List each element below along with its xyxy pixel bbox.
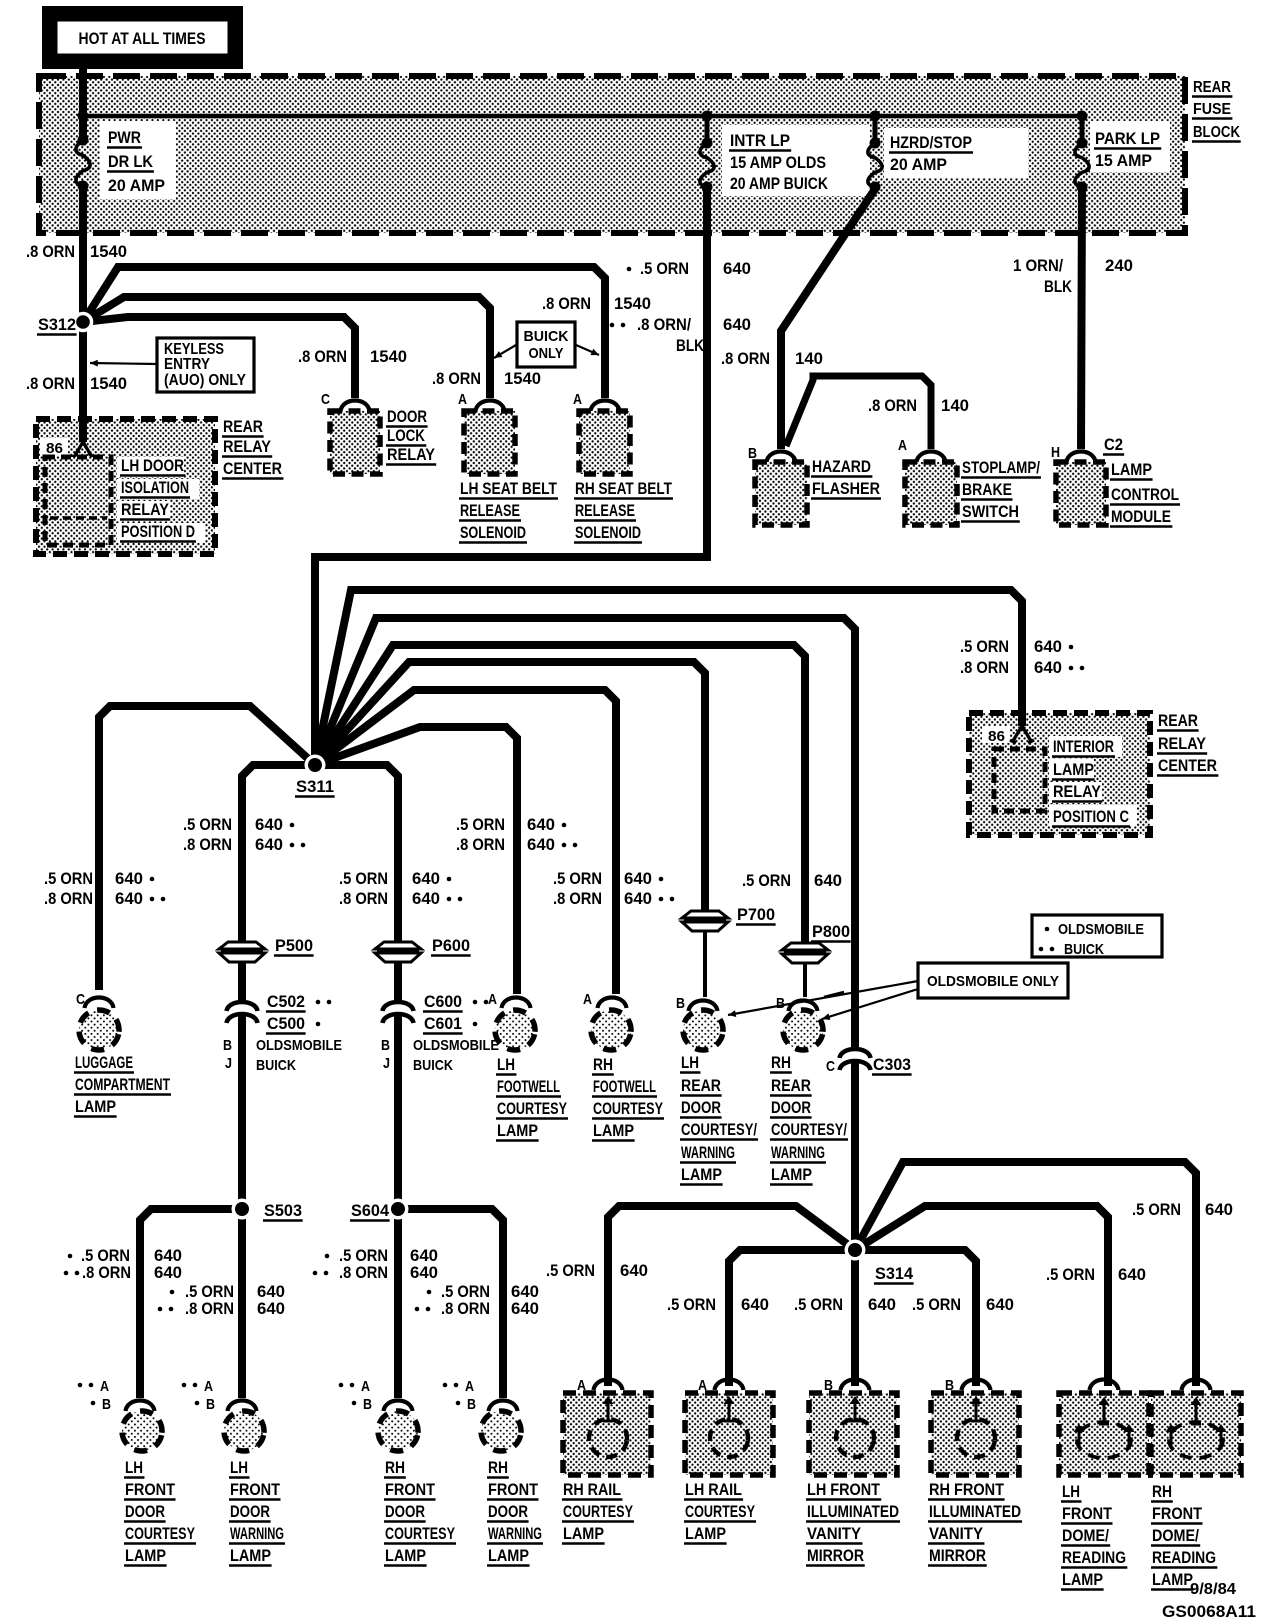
svg-text:C601: C601 [424,1015,462,1033]
fuse INTR LP 15 AMP OLDS / 20 AMP BUICK [702,138,713,149]
svg-text:20 AMP BUICK: 20 AMP BUICK [730,174,829,193]
svg-text:COURTESY: COURTESY [563,1503,633,1521]
svg-text:LH DOOR: LH DOOR [121,457,184,475]
wire: S311 to LH footwell courtesy lamp [315,727,517,994]
svg-text:REAR: REAR [223,418,263,436]
wire: C600 down to splice S604 [394,1015,402,1210]
label box HOT AT ALL TIMES [42,6,243,69]
svg-text:BUICK: BUICK [1064,941,1104,958]
svg-text:MIRROR: MIRROR [807,1547,864,1565]
bus wire inside fuse block [83,114,1082,119]
svg-text:ILLUMINATED: ILLUMINATED [929,1503,1021,1521]
lamp: RH FOOTWELL COURTESY LAMP, pin A [583,991,664,1141]
svg-text:20 AMP: 20 AMP [108,176,165,195]
svg-text:LAMP: LAMP [385,1547,426,1565]
svg-text:.5 ORN: .5 ORN [456,816,505,834]
svg-text:.5 ORN: .5 ORN [183,816,232,834]
svg-text:.5 ORN: .5 ORN [546,1262,595,1280]
wire: INTR LP fuse down and across to splice S311 [315,187,707,765]
REAR FUSE BLOCK (stippled dashed box) [39,76,1185,233]
svg-text:1540: 1540 [614,295,651,313]
svg-text:.5 ORN: .5 ORN [1046,1266,1095,1284]
svg-text:B: B [223,1037,232,1054]
svg-text:RELAY: RELAY [223,438,271,456]
svg-text:COURTESY/: COURTESY/ [771,1121,847,1139]
svg-text:640: 640 [527,816,555,834]
svg-text:INTERIOR: INTERIOR [1053,738,1114,756]
svg-text:.5 ORN: .5 ORN [553,870,602,888]
svg-text:FRONT: FRONT [125,1481,175,1499]
svg-text:.8 ORN: .8 ORN [456,836,505,854]
svg-text:.5 ORN: .5 ORN [339,870,388,888]
svg-text:640: 640 [723,316,751,334]
lamp: LH FOOTWELL COURTESY LAMP, pin A [488,991,568,1141]
wire: S311 to P600 branch [315,765,398,942]
connector P800 [782,943,828,963]
svg-text:LH: LH [497,1056,515,1074]
svg-text:.8 ORN: .8 ORN [542,295,591,313]
lamp: LH FRONT DOME/READING LAMP [1059,1380,1149,1590]
svg-text:A: A [488,991,497,1008]
svg-text:H: H [1051,444,1060,461]
svg-text:FRONT: FRONT [230,1481,280,1499]
wire: PARK LP fuse to lamp control module [1081,187,1082,449]
svg-text:15 AMP: 15 AMP [1095,151,1152,170]
wire: S311 to RH footwell courtesy lamp [315,690,616,994]
svg-text:.8 ORN/: .8 ORN/ [637,316,691,334]
svg-text:C502: C502 [267,993,305,1011]
svg-text:.5 ORN: .5 ORN [81,1247,130,1265]
svg-text:RELAY: RELAY [387,446,435,464]
svg-text:LAMP: LAMP [685,1525,726,1543]
svg-text:.5 ORN: .5 ORN [44,870,93,888]
svg-text:20 AMP: 20 AMP [890,155,947,174]
svg-text:LAMP: LAMP [1062,1571,1103,1589]
relay K1 DOOR LOCK RELAY [321,391,436,474]
svg-text:RH: RH [771,1054,791,1072]
svg-text:640: 640 [115,870,143,888]
svg-text:.8 ORN: .8 ORN [339,890,388,908]
svg-text:PARK LP: PARK LP [1095,129,1160,148]
svg-text:MIRROR: MIRROR [929,1547,986,1565]
svg-text:BLK: BLK [676,337,704,355]
callout box KEYLESS ENTRY (AUO) ONLY with arrow to wire [157,338,254,392]
svg-text:REAR: REAR [1193,79,1231,96]
svg-text:LAMP: LAMP [593,1122,634,1140]
svg-text:.5 ORN: .5 ORN [912,1296,961,1314]
svg-text:COURTESY: COURTESY [593,1100,663,1118]
svg-text:BUICK: BUICK [256,1057,296,1074]
svg-text:640: 640 [624,890,652,908]
svg-text:C600: C600 [424,993,462,1011]
splice S314 [845,1240,866,1261]
svg-text:B: B [467,1396,476,1413]
svg-text:RELEASE: RELEASE [575,502,635,520]
svg-text:CENTER: CENTER [1158,757,1217,775]
svg-text:BLOCK: BLOCK [1193,124,1240,141]
wire: S314 to LH front dome/reading lamp [855,1206,1108,1386]
svg-text:DOME/: DOME/ [1062,1527,1109,1545]
svg-text:.5 ORN: .5 ORN [339,1247,388,1265]
junction dot at PWR fuse tap [78,111,89,122]
relay INTERIOR LAMP RELAY inner box [994,749,1045,811]
svg-text:S503: S503 [264,1202,302,1220]
svg-text:640: 640 [741,1296,769,1314]
svg-text:DOOR: DOOR [771,1099,811,1117]
svg-text:LH: LH [681,1054,699,1072]
svg-text:1540: 1540 [90,375,127,393]
svg-text:LAMP: LAMP [488,1547,529,1565]
svg-text:A: A [465,1378,474,1395]
svg-text:READING: READING [1062,1549,1126,1567]
svg-text:S311: S311 [296,778,334,796]
svg-text:.5 ORN: .5 ORN [640,260,689,278]
svg-text:J: J [225,1055,232,1072]
svg-text:.5 ORN: .5 ORN [667,1296,716,1314]
svg-text:.8 ORN: .8 ORN [553,890,602,908]
svg-text:C303: C303 [873,1056,911,1074]
svg-text:640: 640 [257,1300,285,1318]
wire: S311 to P500 branch [242,765,315,942]
svg-text:OLDSMOBILE: OLDSMOBILE [256,1037,342,1054]
svg-text:S312: S312 [38,316,76,334]
svg-text:86: 86 [46,440,63,457]
svg-text:DOME/: DOME/ [1152,1527,1199,1545]
splice S503 and branch to LH front door courtesy lamp [140,1209,242,1398]
wire: P700 to LH rear door lamp pin B [703,932,707,997]
svg-text:LAMP: LAMP [681,1166,722,1184]
svg-text:1540: 1540 [504,370,541,388]
svg-text:.8 ORN: .8 ORN [960,659,1009,677]
svg-text:640: 640 [868,1296,896,1314]
svg-text:.8 ORN: .8 ORN [868,397,917,415]
lamp: LH FRONT DOOR WARNING LAMP, pins A/B [182,1378,285,1566]
svg-text:640: 640 [255,816,283,834]
svg-text:HAZARD: HAZARD [812,458,871,476]
svg-text:640: 640 [1118,1266,1146,1284]
svg-text:COMPARTMENT: COMPARTMENT [75,1076,170,1094]
connector C502 (Olds) / C500 (Buick) [227,1002,258,1011]
svg-text:RH: RH [1152,1483,1172,1501]
relay center: INTERIOR LAMP RELAY POSITION C in REAR RELAY CENTER [969,710,1218,835]
svg-text:B: B [206,1396,215,1413]
svg-text:FLASHER: FLASHER [812,480,880,498]
wire: S314 to RH front dome/reading lamp [855,1162,1196,1386]
svg-text:DOOR: DOOR [230,1503,270,1521]
svg-text:.8 ORN: .8 ORN [298,348,347,366]
svg-text:C: C [826,1058,835,1075]
svg-text:.5 ORN: .5 ORN [794,1296,843,1314]
svg-text:640: 640 [412,890,440,908]
svg-text:9/8/84: 9/8/84 [1190,1581,1236,1598]
junction dot at PARK LP fuse tap [1077,111,1088,122]
solenoid LH SEAT BELT RELEASE SOLENOID [458,391,558,543]
svg-text:RH: RH [488,1459,508,1477]
wire: S311 to P800 / RH rear door lamp [315,645,805,942]
svg-text:.8 ORN: .8 ORN [185,1300,234,1318]
svg-text:640: 640 [410,1247,438,1265]
svg-text:B: B [102,1396,111,1413]
svg-text:RH: RH [385,1459,405,1477]
svg-text:.8 ORN: .8 ORN [432,370,481,388]
svg-text:CENTER: CENTER [223,460,282,478]
svg-text:OLDSMOBILE ONLY: OLDSMOBILE ONLY [927,973,1059,990]
svg-text:640: 640 [115,890,143,908]
svg-text:140: 140 [795,350,823,368]
junction dot at HZRD/STOP fuse tap [870,111,881,122]
svg-text:15 AMP OLDS: 15 AMP OLDS [730,153,826,172]
svg-text:1 ORN/: 1 ORN/ [1013,257,1063,275]
svg-text:ILLUMINATED: ILLUMINATED [807,1503,899,1521]
svg-text:640: 640 [511,1283,539,1301]
svg-text:.8 ORN: .8 ORN [183,836,232,854]
svg-text:LAMP: LAMP [230,1547,271,1565]
wire: P800 to RH rear door lamp pin B [803,964,807,997]
svg-text:LAMP: LAMP [497,1122,538,1140]
connector P600 [375,942,421,962]
wire: S312 to RH seat belt release solenoid [83,267,605,398]
svg-text:RELAY: RELAY [1053,783,1101,801]
svg-text:REAR: REAR [1158,712,1198,730]
svg-text:PWR: PWR [108,128,141,147]
label .5 ORN 640 / .8 ORN 640 (LH courtesy branch) [68,1254,73,1259]
svg-text:640: 640 [620,1262,648,1280]
svg-text:FOOTWELL: FOOTWELL [497,1078,560,1096]
svg-text:240: 240 [1105,257,1133,275]
svg-text:OLDSMOBILE: OLDSMOBILE [1058,921,1144,938]
wire: S311 to interior lamp relay (rear relay center) [315,590,1022,765]
svg-text:FRONT: FRONT [1152,1505,1202,1523]
svg-text:RH RAIL: RH RAIL [563,1481,621,1499]
fuse HZRD/STOP 20 AMP [870,138,881,149]
svg-text:.8 ORN: .8 ORN [339,1264,388,1282]
svg-text:RH: RH [593,1056,613,1074]
svg-text:VANITY: VANITY [929,1525,983,1543]
wire: P600 to C600 [394,963,402,1003]
label .5 ORN 640 / .8 ORN 640 (LH warning branch) [170,1290,175,1295]
svg-text:640: 640 [1034,638,1062,656]
svg-text:DOOR: DOOR [681,1099,721,1117]
svg-text:LAMP: LAMP [771,1166,812,1184]
svg-text:BUICK: BUICK [524,328,569,345]
fuse PARK LP 15 AMP [1077,138,1088,149]
lamp: RH FRONT DOOR WARNING LAMP, pins A/B [443,1378,543,1566]
svg-text:.8 ORN: .8 ORN [82,1264,131,1282]
svg-text:LH: LH [1062,1483,1080,1501]
svg-text:INTR LP: INTR LP [730,131,790,150]
svg-text:640: 640 [527,836,555,854]
svg-text:.8 ORN: .8 ORN [26,375,75,393]
svg-text:P500: P500 [275,937,313,955]
svg-text:.5 ORN: .5 ORN [441,1283,490,1301]
svg-text:COURTESY: COURTESY [497,1100,567,1118]
splice S311 [305,755,326,776]
svg-text:P600: P600 [432,937,470,955]
svg-text:RELAY: RELAY [121,501,169,519]
svg-text:LH SEAT BELT: LH SEAT BELT [460,480,557,498]
callout box BUICK ONLY with arrows to seat belt wires [517,322,575,367]
svg-text:86: 86 [988,728,1005,745]
wire: S312 to LH seat belt release solenoid [83,297,490,398]
svg-text:WARNING: WARNING [681,1144,735,1162]
solenoid RH SEAT BELT RELEASE SOLENOID [573,391,673,543]
relay LH DOOR ISOLATION RELAY inner box [45,457,111,545]
connector C600 (Olds) / C601 (Buick) [383,1002,414,1011]
legend box: asterisk = OLDSMOBILE, double asterisk = BUICK [1032,915,1162,957]
module U1 LAMP CONTROL MODULE, connector C2 pin H [1051,436,1180,527]
wire: S312 to door lock relay [83,317,355,398]
svg-text:.8 ORN: .8 ORN [44,890,93,908]
wire: C303 down to splice S314 [851,1062,859,1250]
svg-text:SOLENOID: SOLENOID [460,524,526,542]
svg-text:640: 640 [986,1296,1014,1314]
svg-text:RH SEAT BELT: RH SEAT BELT [575,480,672,498]
lamp: LH FRONT ILLUMINATED VANITY MIRROR, pin B [806,1377,900,1566]
svg-text:REAR: REAR [681,1077,721,1095]
svg-text:WARNING: WARNING [230,1525,284,1543]
svg-text:.5 ORN: .5 ORN [960,638,1009,656]
svg-text:GS0068A11: GS0068A11 [1162,1602,1256,1621]
wire: hazard flasher pin B to stoplamp/brake switch [786,376,931,449]
lamp: LH REAR DOOR COURTESY/WARNING LAMP, pin B [676,995,758,1185]
svg-text:DR LK: DR LK [108,152,154,171]
svg-text:A: A [204,1378,213,1395]
svg-text:640: 640 [412,870,440,888]
lamp: RH REAR DOOR COURTESY/WARNING LAMP, pin B [770,995,848,1185]
svg-text:COURTESY: COURTESY [685,1503,755,1521]
svg-text:FRONT: FRONT [488,1481,538,1499]
callout box OLDSMOBILE ONLY with arrows to rear door lamps [918,963,1068,998]
svg-text:.5 ORN: .5 ORN [185,1283,234,1301]
svg-text:A: A [458,391,467,408]
svg-text:LH: LH [125,1459,143,1477]
svg-text:P700: P700 [737,906,775,924]
label .8 ORN/BLK 640 (Buick) [610,323,615,328]
wire: S311 to P700 / LH rear door lamp [315,662,705,911]
svg-text:SOLENOID: SOLENOID [575,524,641,542]
label .5 ORN 640 / .8 ORN 640 (RH courtesy branch) [325,1254,330,1259]
svg-text:1540: 1540 [90,243,127,261]
wire: S314 to RH rail courtesy lamp [608,1206,855,1386]
svg-text:A: A [361,1378,370,1395]
svg-text:REAR: REAR [771,1077,811,1095]
svg-text:VANITY: VANITY [807,1525,861,1543]
svg-text:.5 ORN: .5 ORN [1132,1201,1181,1219]
wire: C500 down to splice S503 [238,1015,246,1210]
svg-text:A: A [573,391,582,408]
wire: S314 to LH rail courtesy lamp [729,1250,855,1386]
svg-text:B: B [381,1037,390,1054]
svg-text:640: 640 [154,1247,182,1265]
wire: PWR DR LK fuse down to splice S312 [79,186,87,419]
lamp: RH RAIL COURTESY LAMP, pin A [562,1377,651,1544]
svg-text:RELAY: RELAY [1158,735,1206,753]
svg-text:B: B [676,995,685,1012]
lamp: RH FRONT DOOR COURTESY LAMP, pins A/B [339,1378,456,1566]
svg-text:LAMP: LAMP [1053,761,1094,779]
svg-text:A: A [898,437,907,454]
switch STOPLAMP/BRAKE SWITCH [898,437,1041,525]
svg-text:640: 640 [624,870,652,888]
svg-text:640: 640 [257,1283,285,1301]
svg-text:C: C [321,391,330,408]
svg-text:BRAKE: BRAKE [962,481,1012,499]
svg-text:SWITCH: SWITCH [962,503,1019,521]
svg-text:LAMP: LAMP [563,1525,604,1543]
svg-text:640: 640 [1205,1201,1233,1219]
svg-text:LH RAIL: LH RAIL [685,1481,742,1499]
svg-text:640: 640 [511,1300,539,1318]
svg-text:140: 140 [941,397,969,415]
svg-text:FRONT: FRONT [385,1481,435,1499]
svg-text:DOOR: DOOR [387,408,427,426]
wire: P500 to C500 [238,963,246,1003]
svg-text:640: 640 [255,836,283,854]
svg-text:BLK: BLK [1044,278,1072,296]
svg-text:DOOR: DOOR [488,1503,528,1521]
svg-text:LAMP: LAMP [75,1098,116,1116]
wire: S314 to LH front illuminated vanity mirror [851,1250,859,1386]
svg-text:LAMP: LAMP [1111,461,1152,479]
svg-text:A: A [583,991,592,1008]
svg-text:POSITION D: POSITION D [121,523,195,541]
relay center: LH DOOR ISOLATION RELAY POSITION D in REAR RELAY CENTER [36,417,283,554]
wire: HZRD/STOP fuse to hazard flasher [781,189,875,449]
svg-text:ISOLATION: ISOLATION [121,479,189,497]
svg-text:RH FRONT: RH FRONT [929,1481,1004,1499]
svg-text:.8 ORN: .8 ORN [441,1300,490,1318]
svg-text:640: 640 [814,872,842,890]
svg-text:ONLY: ONLY [529,345,564,362]
svg-text:COURTESY: COURTESY [385,1525,455,1543]
svg-text:C500: C500 [267,1015,305,1033]
wire: S311 to C303 and splice S314 [315,618,855,1050]
svg-text:B: B [363,1396,372,1413]
svg-text:S314: S314 [875,1265,914,1283]
svg-text:FOOTWELL: FOOTWELL [593,1078,656,1096]
svg-text:(AUO) ONLY: (AUO) ONLY [164,372,247,389]
label .5 ORN 640 / .8 ORN 640 (RH warning branch) [427,1290,432,1295]
svg-text:FUSE: FUSE [1193,101,1231,118]
wire: S311 to luggage compartment lamp [99,706,315,990]
svg-text:RELEASE: RELEASE [460,502,520,520]
svg-text:640: 640 [154,1264,182,1282]
flasher HAZARD FLASHER [748,445,881,525]
svg-text:C2: C2 [1104,436,1123,454]
svg-text:FRONT: FRONT [1062,1505,1112,1523]
svg-text:.8 ORN: .8 ORN [26,243,75,261]
svg-text:B: B [776,995,785,1012]
svg-text:WARNING: WARNING [771,1144,825,1162]
connector P700 [682,911,728,931]
svg-text:OLDSMOBILE: OLDSMOBILE [413,1037,499,1054]
svg-text:640: 640 [410,1264,438,1282]
svg-text:WARNING: WARNING [488,1525,542,1543]
svg-text:CONTROL: CONTROL [1111,486,1179,504]
label .5 ORN 640 (Oldsmobile) [627,267,632,272]
svg-text:DOOR: DOOR [125,1503,165,1521]
lamp: LH RAIL COURTESY LAMP, pin A [684,1377,773,1544]
lamp: LUGGAGE COMPARTMENT LAMP, pin C [74,991,171,1117]
svg-text:COURTESY/: COURTESY/ [681,1121,757,1139]
wire: S314 to RH front illuminated vanity mirror [855,1250,976,1386]
svg-text:LOCK: LOCK [387,427,425,445]
splice S604 and branch to RH front door warning lamp [398,1209,503,1398]
svg-text:READING: READING [1152,1549,1216,1567]
junction dot at INTR LP fuse tap [702,111,713,122]
lamp: LH FRONT DOOR COURTESY LAMP, pins A/B [78,1378,196,1566]
connector P500 [219,942,265,962]
